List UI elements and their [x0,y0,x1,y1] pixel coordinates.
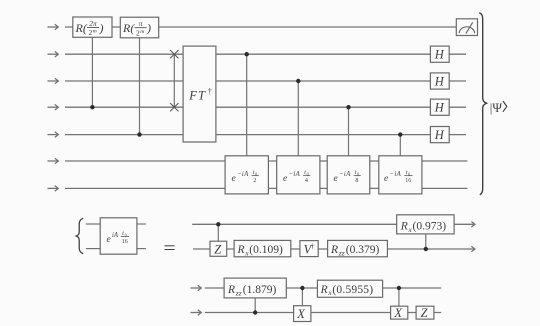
gate Rzz(0.379) [328,240,388,257]
input arrow q7 [48,186,59,192]
control line cU2 from q3 [297,81,299,156]
control dot on q5 for cU4 [398,132,402,136]
control line cRx(0.973) [425,234,427,249]
input arrow q1 [48,24,59,30]
swap cross on q2 [170,50,178,58]
gate Rx(0.5955) on wire c [317,280,382,297]
output brace [479,13,486,195]
svg-text:R(: R( [122,21,135,35]
input arrow wire d [191,310,202,316]
wire q2 [65,53,466,55]
svg-text:Z: Z [421,306,429,320]
control line cZ [217,224,219,241]
wire q6 [65,160,468,162]
control line R1 to q4 [91,37,93,107]
svg-text:2: 2 [253,178,256,184]
equals sign [165,246,175,250]
svg-text:16: 16 [405,178,411,184]
control line cU4 from q5 [399,135,401,156]
gate Z2 on wire d [416,306,434,320]
control dot on wire b for Rx(0.973) [424,247,428,251]
lhs stub wire bottom-right [137,248,146,250]
input arrow q4 [48,104,59,110]
control line Rzz(1.879) to wire d [254,298,256,313]
svg-text:H: H [434,128,445,142]
svg-text:−iA: −iA [237,171,249,178]
gate Rx(0.973) on wire a [397,215,454,234]
gate Rx(0.109) [234,240,291,257]
wire d (bottom) [205,312,441,314]
gate e^iA t0/16 (lhs) [100,218,137,254]
wire q3 [65,80,466,82]
svg-text:zz: zz [235,288,242,297]
control dot on q2 for cU1 [245,52,249,56]
svg-text:Z: Z [214,242,222,256]
svg-text:(1.879): (1.879) [243,284,277,296]
control line cU3 from q4 [348,107,350,156]
svg-text:|Ψ: |Ψ [490,100,503,115]
measurement meter on q1 [456,19,477,36]
svg-text:e: e [334,174,338,184]
swap cross on q4 [170,103,178,111]
gate FT-dagger [183,46,216,142]
control dot on q5 for R2 [137,132,141,136]
gate R(2pi/2^m) [73,17,112,37]
control line cX2 [398,288,400,306]
svg-text:−iA: −iA [289,171,301,178]
lhs stub wire top-left [86,223,100,225]
svg-text:(0.109): (0.109) [249,244,283,256]
svg-text:R: R [320,284,328,296]
svg-text:(0.379): (0.379) [346,244,380,256]
svg-text:4: 4 [305,178,308,184]
svg-text:16: 16 [122,239,128,245]
gate cU3 e^-iA t0/8 [327,156,370,194]
svg-text:R: R [237,244,245,256]
input arrow wire c [191,285,202,291]
output arrow wire a [471,222,475,228]
gate H on q4 [430,99,449,115]
gate X1 on wire d [294,306,311,322]
output arrow wire b [471,246,475,252]
svg-text:(0.973): (0.973) [413,221,447,233]
svg-text:π: π [139,19,143,28]
control dot on q4 for cU3 [346,105,350,109]
control dot on wire c for X2 [397,286,401,290]
swap wire q2-q4 [173,54,175,107]
svg-text:): ) [146,21,151,35]
gate cU4 e^-iA t0/16 [379,156,422,194]
svg-text:FT: FT [188,89,206,103]
gate V-dagger [300,241,318,257]
gate H on q3 [430,73,449,89]
input arrow q2 [48,51,59,57]
control dot on q3 for cU2 [296,79,300,83]
input arrow q3 [48,78,59,84]
wire q7 [65,187,468,189]
svg-text:e: e [107,235,111,245]
control line cU1 from q2 [246,54,248,156]
gate cU2 e^-iA t0/4 [277,156,320,194]
rhs wire b (bottom) [193,248,475,250]
gate H on q5 [430,127,449,143]
control dot on q4 for R1 [90,105,94,109]
control line R2 to q5 [139,38,141,135]
gate X2 on wire d [391,306,408,320]
svg-text:zz: zz [338,248,345,257]
decomposition left brace [76,218,83,254]
gate Z on wire b [210,241,227,256]
wire q5 [65,134,466,136]
wire q1 [65,26,456,28]
wire q4 [65,106,466,108]
gate cU1 e^-iA t0/2 [225,156,268,194]
gate H on q2 [430,46,449,62]
svg-text:8: 8 [355,178,358,184]
svg-text:H: H [434,75,445,89]
svg-text:): ) [99,21,104,35]
gate Rzz(1.879) on wire c [224,278,286,298]
control dot on wire d for Rzz [253,310,257,314]
svg-text:R: R [227,284,235,296]
svg-text:2π: 2π [89,19,97,28]
input arrow q5 [48,132,59,138]
gate R(pi/2^m) [120,17,158,38]
lhs stub wire top-right [137,223,146,225]
control line cX1 [301,288,303,306]
svg-text:m: m [93,29,97,35]
svg-text:R: R [400,221,408,233]
svg-text:†: † [311,241,315,250]
svg-text:m: m [140,29,144,35]
svg-text:e: e [283,174,287,184]
state label |Psi> [490,100,507,115]
control dot on wire a for Z [216,222,220,226]
svg-text:H: H [434,101,445,115]
rhs wire a (top) [192,223,475,225]
svg-text:e: e [384,174,388,184]
lhs stub wire bottom-left [86,248,100,250]
svg-text:X: X [393,306,403,320]
svg-text:iA: iA [112,232,119,239]
svg-text:R(: R( [75,21,88,35]
svg-text:R: R [330,244,338,256]
wire c (top) [205,287,441,289]
svg-text:e: e [232,174,236,184]
svg-text:−iA: −iA [390,171,402,178]
svg-text:X: X [296,307,306,321]
svg-text:H: H [434,48,445,62]
svg-text:−iA: −iA [339,171,351,178]
input arrow q6 [48,158,59,164]
svg-text:(0.5955): (0.5955) [332,284,373,296]
control dot on wire c for X1 [300,286,304,290]
svg-text:†: † [208,87,212,96]
